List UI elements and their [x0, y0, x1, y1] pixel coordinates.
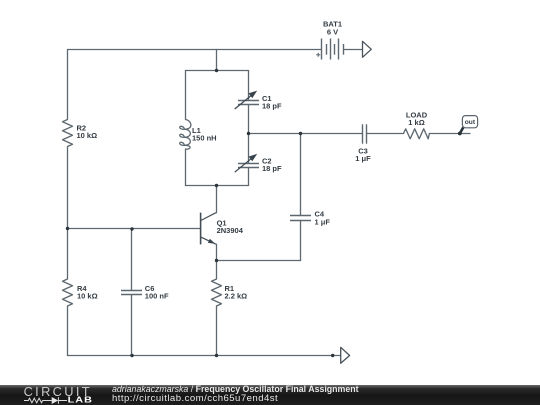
svg-text:2N3904: 2N3904 — [217, 226, 244, 235]
svg-text:1 μF: 1 μF — [315, 218, 331, 227]
svg-text:150 nH: 150 nH — [192, 133, 217, 142]
svg-text:18 pF: 18 pF — [262, 164, 282, 173]
svg-text:100 nF: 100 nF — [145, 291, 169, 300]
svg-text:2.2 kΩ: 2.2 kΩ — [225, 292, 248, 301]
svg-text:http://circuitlab.com/cch65u7e: http://circuitlab.com/cch65u7end4st — [112, 393, 278, 404]
svg-text:LAB: LAB — [68, 396, 93, 405]
svg-text:10 kΩ: 10 kΩ — [77, 131, 98, 140]
svg-text:1 kΩ: 1 kΩ — [408, 118, 424, 127]
svg-text:1 μF: 1 μF — [355, 154, 371, 163]
svg-text:18 pF: 18 pF — [262, 102, 282, 111]
svg-text:out: out — [465, 119, 476, 126]
svg-text:6 V: 6 V — [327, 27, 338, 36]
svg-text:10 kΩ: 10 kΩ — [77, 292, 98, 301]
